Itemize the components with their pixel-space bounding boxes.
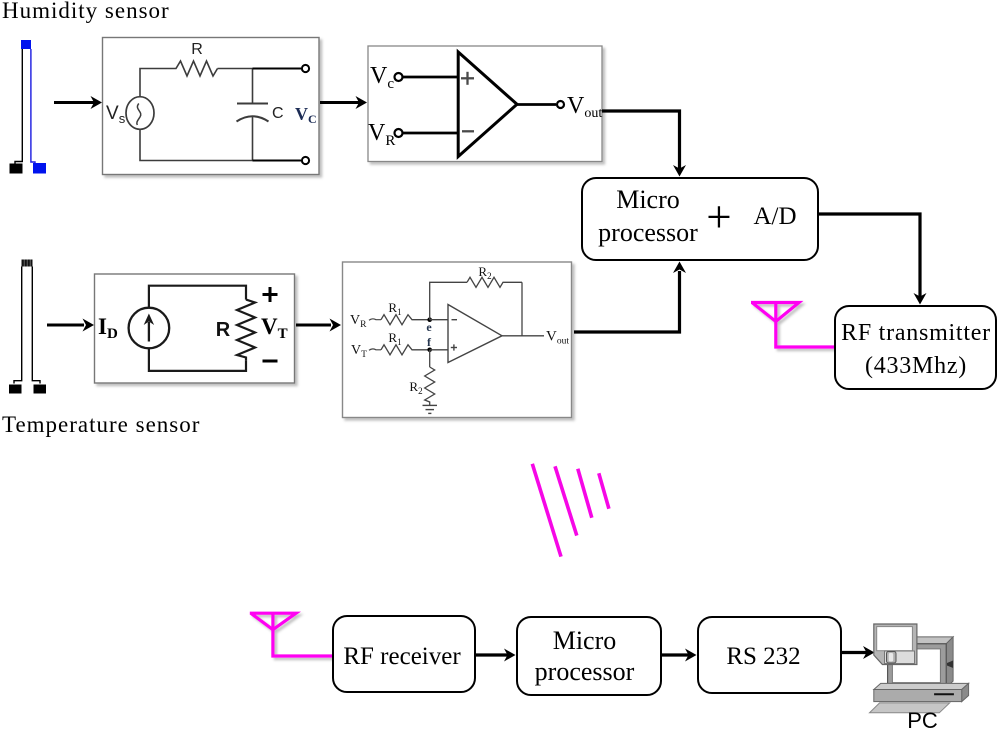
label "Humidity sensor" <box>2 0 170 24</box>
wire: op-amp output <box>516 103 556 106</box>
wire: filter loop <box>140 69 253 161</box>
svg-text:R: R <box>216 319 231 341</box>
monitor button notch <box>947 661 953 669</box>
resistor R2 (to ground) <box>425 367 435 405</box>
label "Temperature sensor" <box>2 412 200 438</box>
wire: humidity sensor to RC filter <box>54 96 102 109</box>
humidity sensor icon <box>10 40 47 174</box>
label - (VT polarity) <box>263 360 278 363</box>
wire: microprocessor to RF transmitter <box>819 214 927 305</box>
wire: diff amp output <box>502 335 544 337</box>
label "RF receiver" <box>330 644 474 670</box>
wire: Vc to op-amp <box>403 76 457 79</box>
monitor back/top face <box>888 637 954 644</box>
wire: VR to op-amp <box>403 132 457 135</box>
resistor R (thermistor) <box>237 300 255 361</box>
terminal wires (filter) <box>253 69 302 161</box>
antenna (transmitter) <box>751 303 834 348</box>
PC icon <box>870 624 969 713</box>
wire: comparator to microprocessor <box>602 111 686 177</box>
wire: micro processor to RS 232 <box>662 649 697 662</box>
wire: node f down <box>429 350 431 367</box>
monitor right face <box>946 637 953 688</box>
pin - (diff amp) <box>452 319 458 321</box>
RF receiver box <box>332 615 476 693</box>
system unit top face <box>874 683 969 689</box>
label "PC" <box>890 709 955 731</box>
pin - (comparator) <box>462 130 474 132</box>
radio waves <box>532 464 609 557</box>
label "+" <box>700 195 738 240</box>
label "RF transmitter (433Mhz)" <box>835 317 997 383</box>
wire: feedback up <box>430 282 467 319</box>
RS 232 box <box>697 616 842 694</box>
wire: current source block to diff amp <box>296 319 341 332</box>
wire: temperature sensor to current source block <box>47 319 94 332</box>
current source ID (circle with up arrow) <box>129 308 170 349</box>
capacitor C <box>237 104 269 122</box>
differential amplifier block <box>343 262 572 418</box>
terminal node (top) <box>302 65 309 72</box>
input terminal VR <box>395 129 403 137</box>
input terminal Vc <box>395 73 403 81</box>
pin + (comparator) <box>461 72 474 85</box>
node e <box>427 317 448 322</box>
output terminal Vout <box>557 101 564 108</box>
RC low-pass filter block <box>103 38 320 175</box>
wire: VT input <box>369 349 381 350</box>
system unit right face <box>962 683 969 701</box>
svg-text:e: e <box>426 320 432 334</box>
node f <box>427 348 448 353</box>
terminal node (bottom) <box>302 157 309 164</box>
antenna (receiver) <box>250 613 332 656</box>
wire: diff amp to microprocessor <box>574 262 686 333</box>
label "Micro processor" (top box) <box>581 183 715 249</box>
temperature sensor icon <box>9 260 46 394</box>
floppy disk <box>874 624 917 665</box>
svg-text:C: C <box>272 105 284 122</box>
resistor R2 (feedback) <box>467 277 522 287</box>
monitor base dark edge <box>886 688 947 690</box>
op-amp U2 (diff amp) <box>448 305 502 363</box>
system unit front face <box>874 690 962 702</box>
keyboard <box>870 703 950 713</box>
microprocessor + A/D box <box>581 177 819 261</box>
monitor front frame <box>888 644 947 688</box>
monitor screen <box>892 649 940 683</box>
resistor R1 (VT branch) <box>381 345 430 355</box>
label "A/D" <box>744 203 806 231</box>
label "Micro processor" (bottom box) <box>512 625 657 687</box>
wire: RF receiver to micro processor <box>476 649 516 662</box>
RF transmitter box <box>834 305 997 390</box>
wire: feedback down to output <box>521 282 523 336</box>
wire: filter to comparator <box>320 96 367 109</box>
micro processor box (receiver side) <box>516 616 662 696</box>
wire: RS 232 to PC <box>842 646 875 659</box>
label + (VT polarity) <box>263 287 278 302</box>
resistor R (filter) <box>176 61 218 76</box>
pin + (diff amp) <box>451 344 457 350</box>
resistor R1 (VR branch) <box>381 315 430 325</box>
label "RS 232" <box>691 644 836 670</box>
system unit slot <box>934 693 954 695</box>
ground <box>423 405 438 413</box>
op-amp U1 (comparator) <box>458 52 517 157</box>
current source block <box>95 274 295 383</box>
wire: current source loop <box>149 286 246 371</box>
comparator block <box>368 46 602 162</box>
wire: VR input <box>369 319 381 320</box>
source Vs <box>126 97 154 130</box>
svg-text:R: R <box>191 41 203 58</box>
